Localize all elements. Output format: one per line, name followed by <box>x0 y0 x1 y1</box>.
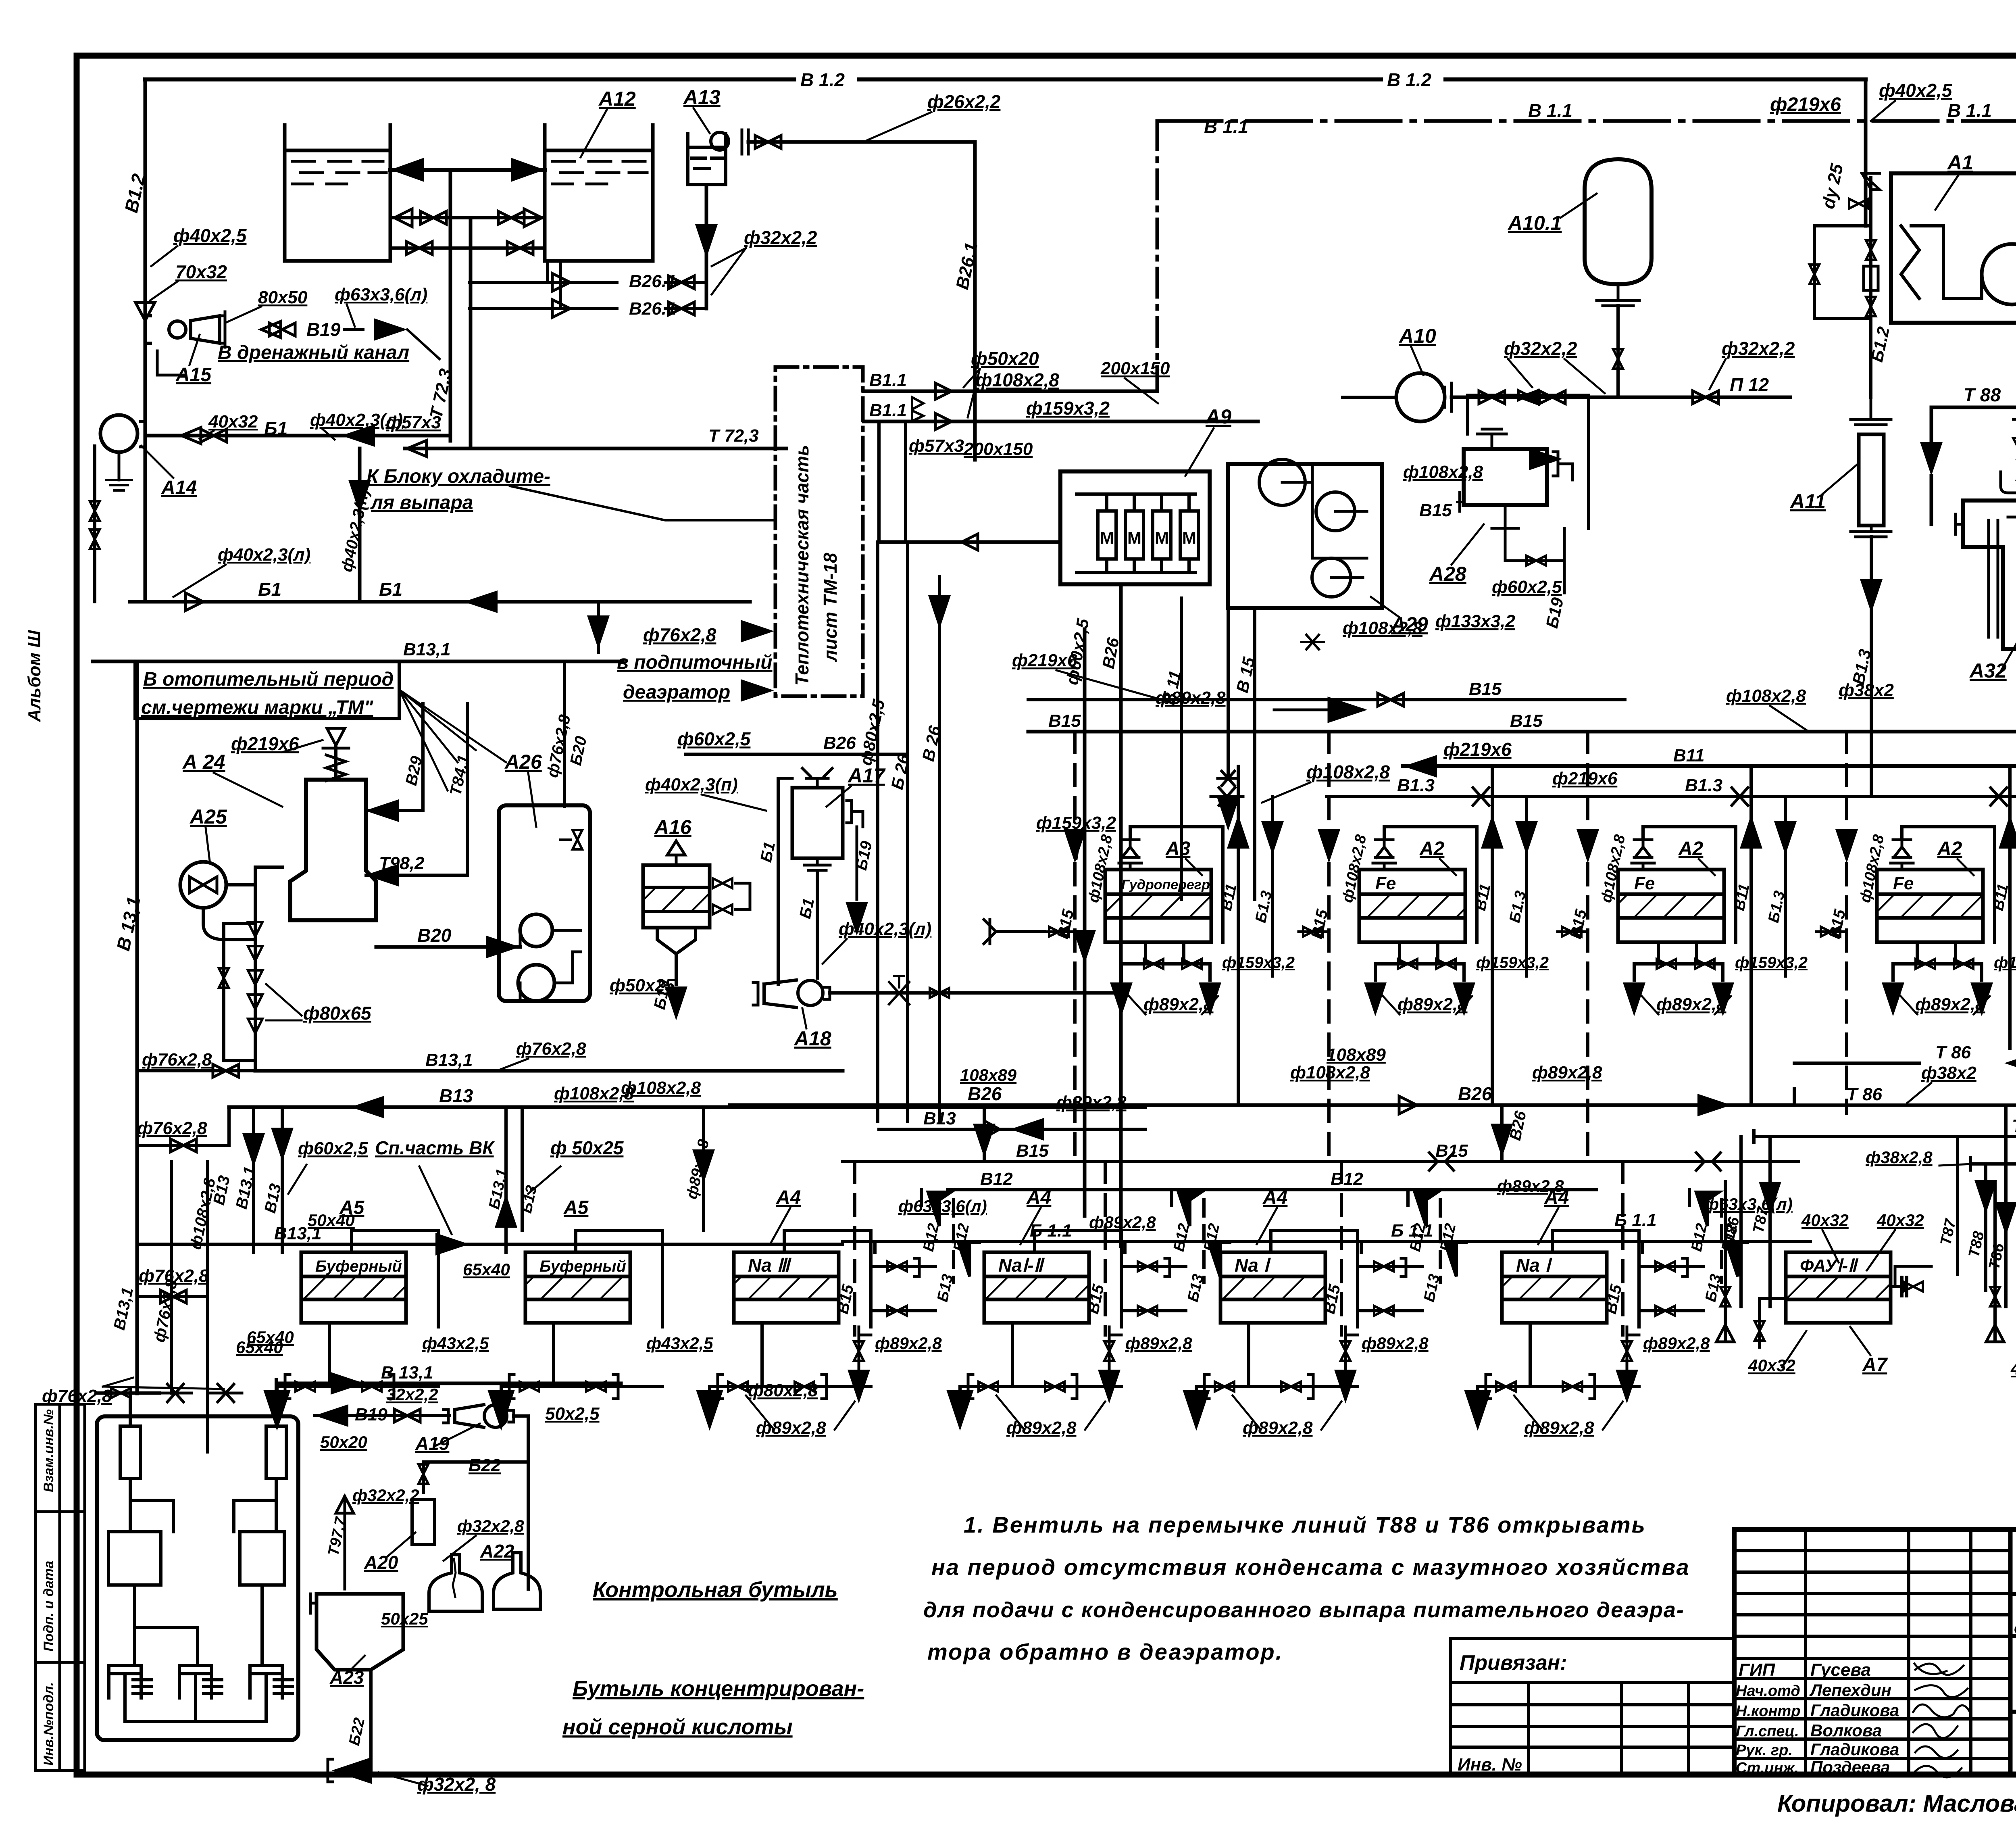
wire B11 risers to bus below <box>1237 942 1240 1105</box>
transfer valve row 1 <box>390 216 545 219</box>
svg-text:А2: А2 <box>1937 838 1962 859</box>
header B1.1 upper 108 <box>864 390 1157 393</box>
svg-text:ФАУⅠ-Ⅱ: ФАУⅠ-Ⅱ <box>1800 1256 1859 1276</box>
svg-text:ф40х2,5: ф40х2,5 <box>1879 80 1953 101</box>
wire T86 bus <box>1794 1103 2016 1107</box>
A10.1 bottom flange <box>1597 284 1639 306</box>
svg-text:Nа Ⅲ: Nа Ⅲ <box>748 1255 792 1276</box>
wire left B15 valve <box>996 930 1044 933</box>
wire B1.1 riser dash-dot <box>1156 121 1159 391</box>
svg-text:ф40х2,5: ф40х2,5 <box>173 225 247 246</box>
svg-text:ф133х3,2: ф133х3,2 <box>1435 611 1516 631</box>
feeder tank A28 <box>1464 449 1547 505</box>
svg-text:ф32х2, 8: ф32х2, 8 <box>417 1774 496 1795</box>
ejector A19 <box>455 1405 484 1427</box>
svg-text:108х89: 108х89 <box>1327 1045 1386 1065</box>
svg-text:Т 72,3: Т 72,3 <box>708 426 759 446</box>
svg-text:ф89х2,8: ф89х2,8 <box>1143 995 1214 1014</box>
svg-text:Рук. гр.: Рук. гр. <box>1736 1742 1793 1759</box>
svg-text:тора обратно в деаэратор.: тора обратно в деаэратор. <box>927 1639 1283 1664</box>
pump A14 <box>100 415 137 452</box>
signature table columns <box>1804 1529 1807 1775</box>
svg-text:ф60х2,5: ф60х2,5 <box>298 1139 368 1158</box>
wire T87 bus <box>1754 1135 2016 1138</box>
svg-text:1. Вентиль на перемычке лин: 1. Вентиль на перемычке линий Т88 и Т86 … <box>964 1512 1646 1537</box>
svg-text:А10.1: А10.1 <box>1507 212 1562 234</box>
svg-text:ф159х3,2: ф159х3,2 <box>1036 813 1116 833</box>
svg-text:Ст.инж.: Ст.инж. <box>1736 1760 1799 1777</box>
svg-text:А23: А23 <box>329 1667 364 1688</box>
svg-text:ля выпара: ля выпара <box>370 492 473 513</box>
signatures scribbles <box>1913 1664 1970 1777</box>
svg-text:ф32х2,2: ф32х2,2 <box>744 227 817 248</box>
svg-text:ф159х3,2: ф159х3,2 <box>1026 398 1110 419</box>
svg-text:А14: А14 <box>161 477 197 498</box>
B26 long risers mid <box>1083 629 1087 1216</box>
svg-text:ф108х2,8: ф108х2,8 <box>554 1084 634 1103</box>
measuring tank A17 <box>792 788 843 858</box>
svg-text:А4: А4 <box>1026 1187 1051 1208</box>
filter vessel А4 (Nа Ⅰ) <box>1502 1252 1607 1323</box>
svg-text:ф108х2,8: ф108х2,8 <box>1343 618 1423 638</box>
svg-text:Контрольная бутыль: Контрольная бутыль <box>593 1578 838 1602</box>
filter vessel А4 (Nа Ⅲ) <box>734 1252 839 1323</box>
svg-text:ф159х3,2: ф159х3,2 <box>1476 954 1549 972</box>
wire B13 bus <box>229 1105 1145 1109</box>
wire B1.1 top run dash-dot <box>1157 119 2016 123</box>
top inlet lines into cabinet <box>129 1393 132 1426</box>
B26 risers down <box>876 542 879 1121</box>
svg-text:А2: А2 <box>1678 838 1704 859</box>
svg-text:В12: В12 <box>980 1169 1013 1189</box>
svg-text:В26: В26 <box>823 733 856 753</box>
wire T88 bus <box>1970 1162 2016 1166</box>
bypass cluster dy25 <box>1814 177 1871 397</box>
motor block A9 <box>1060 471 1210 584</box>
svg-text:Волкова: Волкова <box>1810 1721 1882 1740</box>
pumps block A29 <box>1228 464 1382 608</box>
svg-text:А4: А4 <box>1544 1187 1569 1208</box>
wire B1.3 bus <box>1327 795 2016 798</box>
svg-text:В19: В19 <box>306 319 341 340</box>
svg-text:ф32х2,2: ф32х2,2 <box>352 1486 419 1505</box>
svg-text:М: М <box>1127 528 1141 547</box>
svg-text:Б22: Б22 <box>469 1456 501 1475</box>
wire B15 upper segment <box>1028 698 1625 701</box>
svg-text:40х32: 40х32 <box>2010 1359 2016 1378</box>
capacitor symbols <box>109 1666 292 1721</box>
svg-text:А16: А16 <box>654 816 692 838</box>
svg-text:ф38х2: ф38х2 <box>1921 1063 1976 1083</box>
svg-text:Гусева: Гусева <box>1810 1660 1871 1680</box>
riser B20 f76x2.8 <box>563 661 566 806</box>
TM-18 block dash-dot box <box>775 367 863 696</box>
wire B1 pump discharge <box>146 434 450 438</box>
risers between FAU1 and FAU2 <box>1956 1137 1959 1274</box>
svg-text:Fе: Fе <box>1375 874 1396 893</box>
svg-text:ф32х2,2: ф32х2,2 <box>1504 338 1577 359</box>
label B19 drop near A17 <box>856 827 858 899</box>
svg-text:50х20: 50х20 <box>320 1433 367 1452</box>
svg-text:В15: В15 <box>1469 679 1502 699</box>
A32L top fittings <box>2001 460 2016 501</box>
svg-text:В 1.2: В 1.2 <box>1387 69 1431 90</box>
svg-text:Копировал: Маслова-: Копировал: Маслова- <box>1777 1790 2016 1817</box>
svg-text:40х32: 40х32 <box>1876 1211 1924 1230</box>
svg-text:ф76х2,8: ф76х2,8 <box>137 1118 207 1138</box>
svg-text:ф159х3,2: ф159х3,2 <box>1222 954 1295 972</box>
header B1.1 lower 159 <box>864 420 1258 423</box>
vertical B13 feeders <box>935 1241 938 1241</box>
wire 200x150 header to A9 <box>879 540 1060 544</box>
recirc line over A28 <box>1468 395 1589 528</box>
svg-text:А3: А3 <box>1165 838 1191 859</box>
svg-text:Б1: Б1 <box>264 418 287 439</box>
svg-text:Теплотехническая часть: Теплотехническая часть <box>791 445 812 686</box>
vent arrow near A20 <box>336 1496 354 1589</box>
svg-text:ф89х2,8: ф89х2,8 <box>1915 995 1985 1014</box>
svg-text:В дренажный канал: В дренажный канал <box>218 342 409 363</box>
svg-text:А22: А22 <box>480 1541 514 1562</box>
cross valves above cabinet <box>159 1384 192 1402</box>
riser f89x2.8 to NaII <box>702 1107 705 1230</box>
svg-text:ф26х2,2: ф26х2,2 <box>927 91 1001 112</box>
wire B26 drop to bottom row <box>983 1105 986 1162</box>
svg-text:В15: В15 <box>1016 1141 1049 1161</box>
bottle A22 <box>494 1553 540 1609</box>
svg-text:ф89х2,8: ф89х2,8 <box>1125 1334 1192 1353</box>
svg-text:Взам.инв.№: Взам.инв.№ <box>41 1409 56 1492</box>
svg-text:Nа Ⅰ: Nа Ⅰ <box>1516 1255 1553 1276</box>
metering box A20 <box>412 1499 435 1545</box>
svg-text:Бутыль концентрирован-: Бутыль концентрирован- <box>573 1677 864 1701</box>
svg-text:ф89х2,8: ф89х2,8 <box>1656 995 1727 1014</box>
svg-text:М: М <box>1155 528 1169 547</box>
label B1 rotated risers <box>777 778 780 984</box>
left margin stamp column <box>35 1404 85 1771</box>
риsers from B13 bus <box>252 1107 255 1252</box>
signature table rows upper empty <box>1734 1549 2010 1552</box>
svg-text:лист ТМ-18: лист ТМ-18 <box>820 553 841 662</box>
wire B1.2 riser <box>144 79 147 323</box>
svg-text:В1.3: В1.3 <box>1397 776 1435 795</box>
svg-text:Н.контр: Н.контр <box>1736 1703 1800 1720</box>
svg-text:ф76х2,8: ф76х2,8 <box>142 1050 212 1070</box>
label B13.1 left vertical top <box>135 661 139 1393</box>
signature rows <box>1734 1657 2010 1660</box>
wire T98.2 into A24 <box>366 874 467 877</box>
riser B13.1/B13 twins to buffer2 <box>504 1107 508 1252</box>
svg-text:В15: В15 <box>1435 1141 1468 1161</box>
A26 top valve <box>573 830 582 849</box>
wire B22 <box>423 1416 528 1589</box>
svg-text:ГИП: ГИП <box>1739 1660 1776 1680</box>
float valve A13 <box>711 132 729 150</box>
svg-text:В15: В15 <box>1510 711 1543 731</box>
svg-text:для сельского строительства.То: для сельского строительства.Топливо газ,… <box>2014 1618 2016 1637</box>
svg-text:80х50: 80х50 <box>258 288 308 307</box>
svg-text:Т 86: Т 86 <box>1847 1084 1883 1104</box>
riser B29 <box>421 704 425 811</box>
svg-text:А4: А4 <box>776 1187 801 1208</box>
svg-text:А20: А20 <box>364 1552 398 1573</box>
wire B1.1 bus low <box>843 1240 1810 1243</box>
svg-text:ф80х65: ф80х65 <box>303 1003 372 1024</box>
wire T72.3 line <box>405 447 786 450</box>
svg-text:П 12: П 12 <box>1730 374 1769 395</box>
svg-text:В15: В15 <box>1419 501 1452 520</box>
svg-text:В13,1: В13,1 <box>274 1224 321 1243</box>
svg-text:ф32х2,8: ф32х2,8 <box>457 1516 524 1535</box>
wire B29 into A24 <box>366 809 423 812</box>
svg-text:Т 87: Т 87 <box>2012 1116 2016 1136</box>
svg-text:Гладикова: Гладикова <box>1810 1701 1899 1720</box>
wire P12 line <box>1452 396 1790 399</box>
vessel A32 left <box>1963 501 2016 649</box>
tank A13 <box>688 133 726 185</box>
svg-text:А2: А2 <box>1419 838 1445 859</box>
svg-text:Б1: Б1 <box>379 579 402 600</box>
wire B11 bus <box>1403 764 2016 768</box>
risers at FAU1 left <box>1739 1137 1743 1307</box>
svg-text:108х89: 108х89 <box>960 1066 1017 1084</box>
svg-text:Нач.отд: Нач.отд <box>1736 1683 1800 1700</box>
svg-text:А10: А10 <box>1398 325 1436 347</box>
svg-text:ф89х2,8: ф89х2,8 <box>1089 1213 1156 1232</box>
svg-text:ф219х6: ф219х6 <box>1012 651 1077 670</box>
svg-text:В 1.2: В 1.2 <box>800 69 845 90</box>
A24 vent with spring <box>334 745 337 780</box>
svg-text:200х150: 200х150 <box>1100 359 1170 378</box>
svg-text:А18: А18 <box>793 1027 831 1050</box>
svg-text:Привязан:: Привязан: <box>1460 1651 1567 1675</box>
svg-text:Гладикова: Гладикова <box>1810 1740 1899 1759</box>
tank A12 right <box>545 125 653 261</box>
svg-text:А19: А19 <box>415 1433 450 1454</box>
svg-text:70х32: 70х32 <box>175 261 227 282</box>
dosing cabinet outer box <box>97 1416 298 1740</box>
heating period note box <box>135 661 399 719</box>
svg-text:В1.1: В1.1 <box>869 400 907 420</box>
wire B1.2 riser right <box>1864 79 1868 226</box>
svg-text:ф108х2,8: ф108х2,8 <box>976 369 1059 390</box>
svg-text:в подпиточный: в подпиточный <box>617 652 773 673</box>
row: TP number cell bottom <box>2010 1592 2016 1596</box>
svg-text:А17: А17 <box>847 764 886 787</box>
wire B19 acid line <box>314 1414 450 1417</box>
row: object title cell bottom <box>2010 1634 2016 1638</box>
tank A12 left <box>285 125 390 261</box>
svg-text:В 1.1: В 1.1 <box>1528 100 1572 121</box>
svg-text:А12: А12 <box>598 88 636 110</box>
pipe B1.2 top run <box>145 77 1866 81</box>
bottle A21 <box>429 1555 482 1611</box>
svg-text:ф32х2,2: ф32х2,2 <box>1722 338 1795 359</box>
wire A11 column <box>1851 397 1891 425</box>
svg-text:65х40: 65х40 <box>463 1260 510 1279</box>
riser T84.1 <box>466 704 469 875</box>
svg-text:ф108х2,8: ф108х2,8 <box>1403 462 1483 482</box>
svg-text:Fе: Fе <box>1893 874 1914 893</box>
svg-text:Т 88: Т 88 <box>1964 384 2001 405</box>
svg-text:ф63х3,6(л): ф63х3,6(л) <box>1704 1195 1793 1214</box>
svg-text:Т 86: Т 86 <box>1935 1043 1971 1062</box>
svg-text:40х32: 40х32 <box>1801 1211 1849 1230</box>
svg-text:В19: В19 <box>355 1405 387 1424</box>
vent arrow on riser <box>135 302 155 321</box>
svg-text:К Блоку охладите-: К Блоку охладите- <box>367 466 550 487</box>
svg-text:А11: А11 <box>1789 490 1826 513</box>
svg-text:Гудроперегр: Гудроперегр <box>1121 877 1210 893</box>
svg-text:для подачи с конденсированн: для подачи с конденсированного выпара пи… <box>923 1598 1685 1622</box>
big cells separator <box>2008 1529 2013 1775</box>
bracket valves between headers <box>912 397 923 421</box>
svg-text:В26: В26 <box>968 1083 1002 1104</box>
svg-text:ф159х3,2: ф159х3,2 <box>1994 954 2016 972</box>
svg-text:Лепехдин: Лепехдин <box>1809 1681 1891 1700</box>
svg-text:ф57х3: ф57х3 <box>386 413 441 432</box>
valves on FAU outlet lines <box>1895 1266 1931 1287</box>
svg-text:В20: В20 <box>417 925 452 946</box>
svg-text:Инв. №: Инв. № <box>1458 1755 1522 1775</box>
inter-tank transfer top <box>390 168 545 172</box>
svg-text:ф76х2,8: ф76х2,8 <box>643 624 716 645</box>
pump A10 <box>1396 373 1445 421</box>
pривязан box <box>1450 1639 1734 1775</box>
wire T88 long line <box>1931 406 2016 409</box>
svg-text:В15: В15 <box>1048 711 1081 731</box>
svg-text:деаэратор: деаэратор <box>623 682 730 703</box>
wire B13 line <box>879 1128 1145 1131</box>
svg-text:В 1.1: В 1.1 <box>1947 100 1992 121</box>
svg-text:ф89х2,8: ф89х2,8 <box>1643 1334 1710 1353</box>
svg-text:ф219х6: ф219х6 <box>1443 739 1512 760</box>
svg-text:А4: А4 <box>1262 1187 1287 1208</box>
valve A25 <box>180 862 226 908</box>
svg-text:ф57х3: ф57х3 <box>909 436 964 456</box>
heat recovery unit A1 <box>1891 173 2016 323</box>
filter А2 group 3 <box>1618 870 1724 942</box>
acid tank A23 <box>317 1594 403 1670</box>
svg-text:А13: А13 <box>683 86 721 108</box>
filter vessel А4 (Nа Ⅰ) <box>1220 1252 1325 1323</box>
filter vessel А7 (ФАУⅠ-Ⅱ) <box>1786 1252 1891 1323</box>
svg-text:Буферный: Буферный <box>315 1258 402 1275</box>
svg-text:А 24: А 24 <box>182 751 225 773</box>
svg-text:ф50х20: ф50х20 <box>971 348 1039 369</box>
svg-text:ф108х2,8: ф108х2,8 <box>1306 761 1390 782</box>
svg-text:Альбом Ш: Альбом Ш <box>25 630 44 722</box>
wire B19 short riser <box>1563 528 1566 593</box>
svg-text:А9: А9 <box>1205 405 1231 428</box>
svg-text:ф89х2,8: ф89х2,8 <box>1056 1093 1127 1112</box>
svg-text:см.чертежи марки „ТМ": см.чертежи марки „ТМ" <box>141 697 374 718</box>
svg-text:ф40х2,3(п): ф40х2,3(п) <box>645 775 738 795</box>
svg-text:ф89х2,8: ф89х2,8 <box>875 1334 942 1353</box>
filter А2 group 2 <box>1359 870 1465 942</box>
svg-text:А26: А26 <box>504 751 542 773</box>
wire B15 risers from Fe row to lower bus <box>1073 968 1077 1162</box>
svg-text:ф40х2,3(л): ф40х2,3(л) <box>218 545 310 565</box>
svg-text:ф38х2,8: ф38х2,8 <box>1866 1148 1933 1167</box>
vertical B12 feeders to Na row <box>920 1190 923 1205</box>
svg-text:ф159х3,2: ф159х3,2 <box>1735 954 1808 972</box>
svg-text:ф89х2,8: ф89х2,8 <box>1156 688 1226 708</box>
svg-text:В 13,1: В 13,1 <box>381 1363 433 1383</box>
svg-text:ф76х2,8: ф76х2,8 <box>516 1039 586 1059</box>
row: stage value bottom <box>2010 1710 2016 1714</box>
svg-text:В13,1: В13,1 <box>425 1050 473 1070</box>
svg-text:ф63х3,6(л): ф63х3,6(л) <box>335 285 427 304</box>
riser pair to T72.3 <box>449 170 452 441</box>
svg-text:Поздеева: Поздеева <box>1810 1758 1890 1777</box>
dosing pump A18 <box>753 982 758 1005</box>
svg-text:50х2,5: 50х2,5 <box>545 1404 600 1424</box>
cabinet inner columns <box>120 1426 140 1479</box>
wire B26 bus <box>730 1103 1794 1107</box>
wire B13.1 line to A19 <box>278 1382 621 1385</box>
svg-text:ф43х2,5: ф43х2,5 <box>422 1334 489 1353</box>
filter A16 <box>643 865 710 928</box>
wire B1 long line lower <box>130 600 750 604</box>
wire B11 B15 risers mid <box>1180 598 1183 899</box>
svg-text:В отопительный период: В отопительный период <box>143 669 394 690</box>
svg-text:ф219х6: ф219х6 <box>1552 769 1618 788</box>
svg-text:NаⅠ-Ⅱ: NаⅠ-Ⅱ <box>998 1255 1045 1276</box>
svg-text:М: М <box>1100 528 1114 547</box>
svg-text:Б 1.1: Б 1.1 <box>1614 1210 1657 1230</box>
valve on A13 outlet <box>742 130 748 154</box>
svg-text:А5: А5 <box>563 1197 589 1218</box>
svg-text:ф219х6: ф219х6 <box>1770 94 1841 115</box>
wire B15 lower bus <box>843 1160 1798 1163</box>
svg-text:50х25: 50х25 <box>381 1609 428 1628</box>
wire B15 main bus <box>1028 730 1931 734</box>
svg-text:Nа Ⅰ: Nа Ⅰ <box>1235 1255 1271 1276</box>
wire B13.1 bus mid <box>255 1069 843 1073</box>
svg-text:на период отсутствия конден: на период отсутствия конденсата с мазутн… <box>931 1554 1690 1580</box>
svg-text:200х150: 200х150 <box>963 439 1033 459</box>
svg-text:Инв.№подл.: Инв.№подл. <box>41 1682 56 1766</box>
svg-text:В 1.1: В 1.1 <box>1204 116 1248 137</box>
svg-text:В26: В26 <box>1458 1083 1492 1104</box>
svg-text:65х40: 65х40 <box>236 1338 283 1357</box>
svg-text:ф43х2,5: ф43х2,5 <box>646 1334 713 1353</box>
filter А3 group 1 <box>1105 870 1211 942</box>
filter vessel А5 (Буферный) <box>301 1252 406 1323</box>
wire B13.1 bus low <box>137 1243 843 1246</box>
svg-text:ф38х2: ф38х2 <box>1839 680 1894 700</box>
transfer valve row 2 <box>390 246 545 250</box>
A13 drain arrow <box>705 185 708 309</box>
filter vessel А5 (Буферный) <box>525 1252 630 1323</box>
svg-text:Гл.спец.: Гл.спец. <box>1736 1723 1799 1740</box>
svg-text:В1.3: В1.3 <box>1685 776 1722 795</box>
svg-text:ф60х2,5: ф60х2,5 <box>1492 577 1562 597</box>
filter А2 group 4 <box>1877 870 1983 942</box>
svg-text:ф108х2,8: ф108х2,8 <box>1726 686 1806 706</box>
water heater A26 <box>499 805 590 1001</box>
wire f26x2.2 line <box>748 140 975 144</box>
svg-text:40х32: 40х32 <box>208 412 258 432</box>
svg-text:ф60х2,5: ф60х2,5 <box>677 728 751 749</box>
svg-text:Т98,2: Т98,2 <box>379 853 425 873</box>
pump A15 drain set <box>145 316 150 343</box>
salt dissolver tank A10.1 <box>1585 159 1652 284</box>
wire f80x65 bypass loop <box>224 867 282 1071</box>
svg-text:ф89х2,8: ф89х2,8 <box>1397 995 1468 1014</box>
svg-text:ной серной кислоты: ной серной кислоты <box>562 1715 793 1739</box>
